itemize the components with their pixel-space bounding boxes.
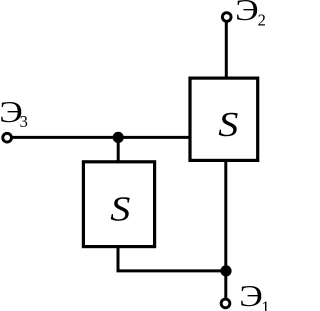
svg-text:S: S bbox=[218, 105, 238, 144]
terminal Э1 (bottom, open circle) bbox=[221, 299, 230, 308]
wire: junction A down to box S2 top bbox=[117, 137, 120, 161]
junction node A bbox=[113, 132, 124, 143]
label Э1 bbox=[239, 279, 270, 311]
label Э2 bbox=[235, 0, 266, 30]
terminal Э2 (top, open circle) bbox=[222, 13, 231, 22]
svg-text:S: S bbox=[110, 190, 130, 229]
wire: top terminal to box S1 bbox=[225, 20, 228, 78]
svg-text:Э: Э bbox=[239, 279, 263, 311]
svg-text:3: 3 bbox=[20, 112, 28, 131]
svg-text:2: 2 bbox=[258, 11, 266, 30]
label Э3 bbox=[0, 95, 28, 131]
svg-text:Э: Э bbox=[235, 0, 259, 27]
wire: box S1 bottom to terminal Э1 bbox=[224, 160, 227, 300]
box S1 (upper) bbox=[190, 78, 258, 160]
terminal Э3 (left, open circle) bbox=[3, 133, 12, 142]
wire: terminal Э3 to box S1 left side bbox=[11, 136, 190, 139]
wire: bottom horizontal to junction B bbox=[117, 269, 227, 272]
svg-text:1: 1 bbox=[261, 298, 267, 311]
junction node B bbox=[220, 265, 231, 276]
box S2 (lower) bbox=[83, 162, 154, 247]
wire: box S2 bottom down bbox=[117, 247, 120, 271]
